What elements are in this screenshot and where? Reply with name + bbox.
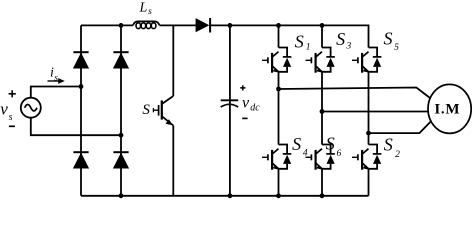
switch S3 emitter diagonal with arrow (316, 66, 322, 73)
bridge diode upper-right (113, 52, 128, 68)
label S4 (292, 134, 308, 159)
svg-text:3: 3 (346, 42, 352, 52)
induction motor IM (428, 84, 471, 133)
svg-text:L: L (139, 1, 148, 16)
junction dot source-top / left leg (79, 84, 84, 89)
switch S2 emitter diagonal with arrow (362, 163, 368, 170)
switch S2 antiparallel diode (369, 154, 382, 169)
junction dot bottom rail / capacitor (228, 193, 233, 198)
switch S5 IGBT body bar (361, 53, 363, 73)
switch S4 collector diagonal (272, 149, 278, 154)
switch S6 emitter diagonal with arrow (316, 163, 322, 170)
switch S5 collector diagonal (362, 52, 368, 57)
switch S3 IGBT gate bar (310, 57, 312, 63)
svg-text:I.M: I.M (434, 101, 460, 117)
switch S3 collector/diode top stub (322, 48, 331, 57)
switch S3 leg from top to switch (321, 25, 323, 47)
junction dot top rail / S1 leg (276, 23, 281, 28)
svg-text:1: 1 (306, 43, 311, 53)
junction dot bottom rail / right bridge leg (119, 193, 124, 198)
label S1 (295, 31, 311, 52)
switch S2 leg from top to switch (368, 133, 370, 144)
switch S5 collector/diode top stub (369, 48, 378, 57)
switch S6 collector diagonal (316, 149, 322, 154)
junction dot phase A (276, 87, 281, 92)
switch S2 collector diagonal (362, 149, 368, 154)
label + (vdc) (240, 85, 245, 90)
switch S4 IGBT gate bar (267, 154, 269, 160)
label - (vdc) (242, 117, 247, 119)
top rail: bridge to inductor (81, 24, 133, 26)
wire phase C to motor (369, 122, 431, 133)
bridge right leg wire (120, 25, 122, 195)
switch S1 emitter wire down (278, 72, 280, 89)
svg-text:v: v (0, 100, 8, 119)
label vs (0, 100, 12, 123)
wire phase A to motor (279, 88, 431, 99)
switch S3 IGBT body bar (315, 53, 317, 73)
junction dot source-bottom / right leg (119, 133, 124, 138)
inductor Ls (133, 21, 160, 28)
label + (source) (9, 90, 16, 97)
junction dot phase B (320, 109, 325, 114)
svg-text:6: 6 (337, 149, 342, 159)
svg-text:S: S (292, 134, 301, 154)
junction dot top rail / capacitor (228, 23, 233, 28)
boost switch emitter wire to bottom rail (172, 126, 174, 196)
label is (50, 65, 58, 83)
switch S6 emitter wire down (321, 169, 323, 196)
bridge diode lower-left (73, 152, 88, 168)
switch S4 collector/diode top stub (279, 145, 288, 154)
capacitor branch wire (229, 25, 231, 195)
junction dot bottom rail / S6 (320, 193, 325, 198)
switch S1 collector/diode top stub (279, 48, 288, 57)
junction dot top rail / S3 leg (320, 23, 325, 28)
switch S6 IGBT body bar (315, 150, 317, 170)
svg-text:s: s (54, 74, 58, 84)
switch S6 antiparallel diode (322, 154, 335, 169)
svg-text:S: S (295, 31, 304, 51)
junction dot phase C (366, 131, 371, 136)
switch S5 IGBT gate bar (357, 57, 359, 63)
switch S2 collector/diode top stub (369, 145, 378, 154)
wire source top to bridge left leg (31, 87, 81, 98)
current arrow is (48, 78, 65, 84)
junction dot bottom rail / S4 (276, 193, 281, 198)
switch S1 IGBT body bar (271, 53, 273, 73)
switch S4 antiparallel diode (279, 154, 292, 169)
switch S3 antiparallel diode (322, 57, 335, 72)
switch S5 emitter wire down (368, 72, 370, 133)
switch S6 IGBT gate bar (310, 154, 312, 160)
boost diode D (196, 18, 211, 33)
switch S1 emitter diagonal with arrow (272, 66, 278, 73)
switch S2 IGBT body bar (361, 150, 363, 170)
svg-text:S: S (384, 29, 393, 49)
switch S3 gate lead (306, 59, 312, 61)
label vdc (242, 95, 260, 114)
label S2 (384, 134, 400, 160)
label S5 (384, 29, 400, 54)
bridge diode lower-right (113, 152, 128, 168)
switch S4 leg from top to switch (278, 89, 280, 145)
bottom rail (81, 195, 369, 197)
switch S1 collector diagonal (272, 52, 278, 57)
switch S4 gate lead (262, 156, 268, 158)
junction dot top rail / right bridge leg (119, 23, 124, 28)
label Ls (139, 1, 153, 18)
switch S5 gate lead (352, 59, 358, 61)
switch S1 IGBT gate bar (267, 57, 269, 63)
switch S1 antiparallel diode (279, 57, 292, 72)
switch S3 emitter wire down (321, 72, 323, 112)
svg-text:v: v (242, 95, 250, 112)
wire phase B to motor (322, 111, 428, 113)
bridge left leg wire (80, 25, 82, 195)
boost switch branch top wire (172, 25, 174, 96)
svg-text:s: s (9, 112, 13, 123)
switch S6 leg from top to switch (321, 112, 323, 145)
svg-text:S: S (336, 29, 345, 49)
switch S5 leg from top to switch (368, 47, 370, 49)
svg-text:2: 2 (395, 150, 400, 160)
label S3 (336, 29, 351, 52)
switch S5 emitter diagonal with arrow (362, 66, 368, 73)
switch S4 emitter wire down (278, 169, 280, 196)
top rail: inductor to boost diode (160, 24, 196, 26)
svg-text:S: S (384, 134, 393, 154)
top rail: boost diode to S5 corner (210, 25, 368, 47)
switch S3 collector diagonal (316, 52, 322, 57)
ac source vs circle (21, 98, 41, 118)
label S6 (326, 134, 342, 160)
switch S5 antiparallel diode (369, 57, 382, 72)
switch S4 IGBT body bar (271, 150, 273, 170)
switch S1 gate lead (262, 59, 268, 61)
switch S4 emitter diagonal with arrow (272, 163, 278, 170)
bridge diode upper-left (73, 52, 88, 68)
switch S6 gate lead (306, 156, 312, 158)
svg-text:5: 5 (394, 43, 399, 53)
wire source bottom to bridge right leg (31, 118, 121, 136)
switch S2 emitter wire down (368, 169, 370, 196)
switch S2 IGBT gate bar (357, 154, 359, 160)
boost switch S (IGBT) (153, 96, 173, 126)
svg-text:S: S (326, 134, 335, 154)
svg-text:dc: dc (250, 102, 260, 113)
switch S2 gate lead (352, 156, 358, 158)
svg-text:S: S (142, 102, 150, 118)
capacitor C plates (221, 100, 239, 107)
switch S1 leg from top to switch (278, 25, 280, 47)
svg-text:s: s (148, 7, 152, 17)
label - (source) (9, 125, 15, 127)
switch S6 collector/diode top stub (322, 145, 331, 154)
